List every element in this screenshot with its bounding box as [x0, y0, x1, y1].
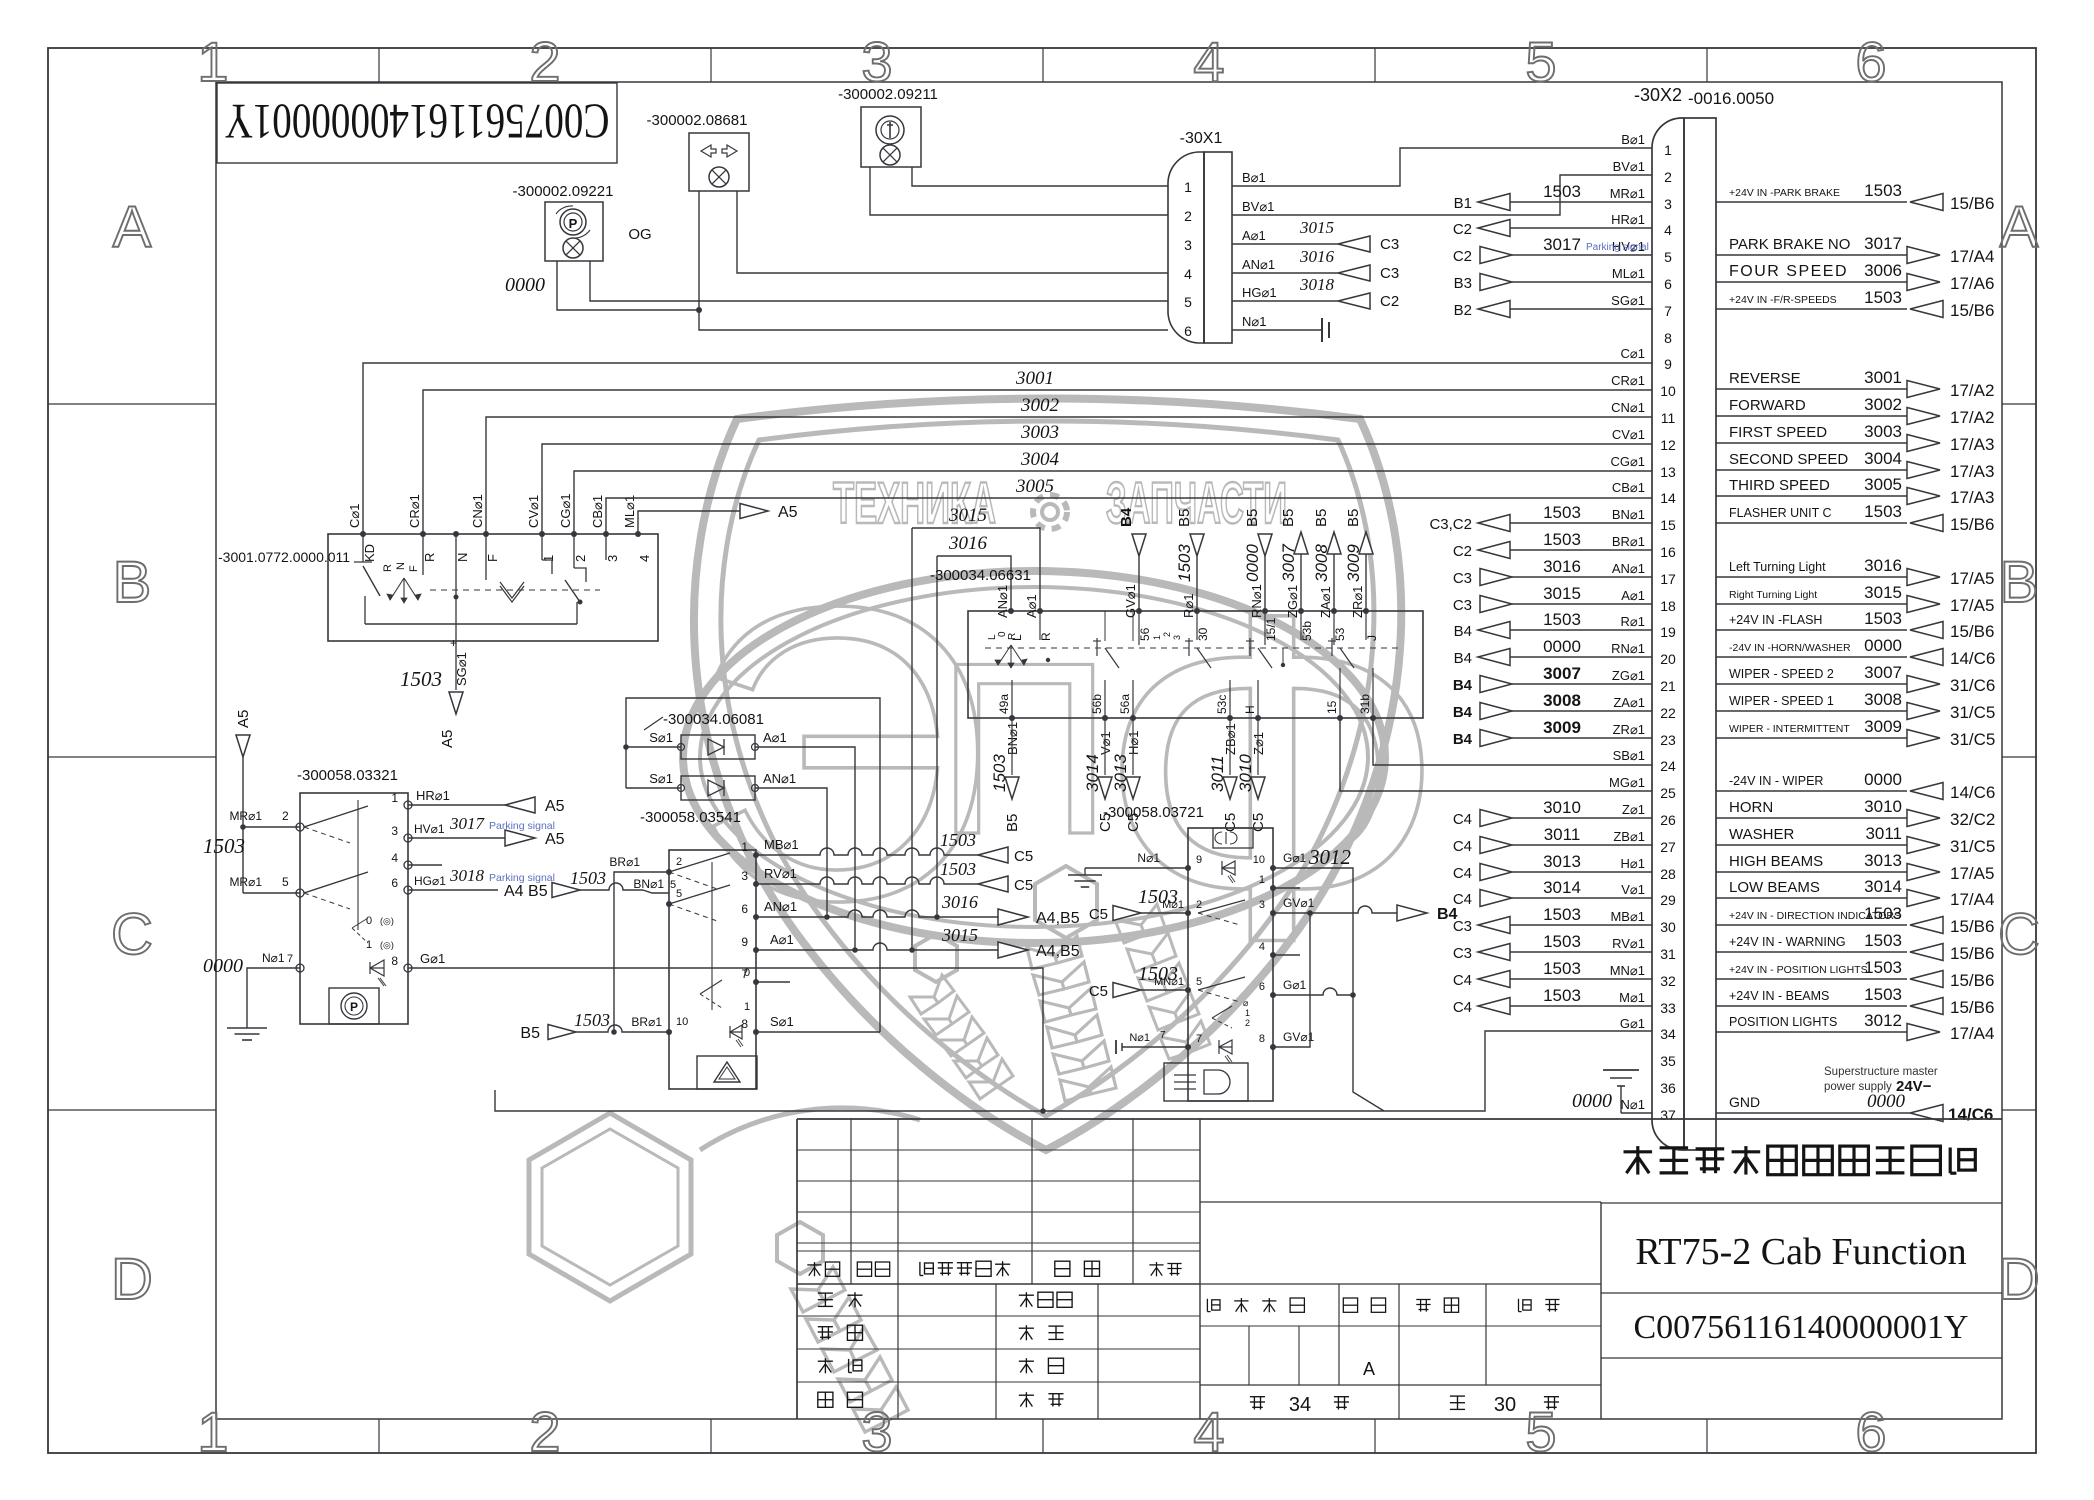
svg-text:A4,B5: A4,B5	[1036, 943, 1080, 960]
wire B⌀1 from -300002.09211 to X1 pin 1	[912, 167, 1168, 186]
svg-text:ZB⌀1: ZB⌀1	[1613, 829, 1645, 844]
svg-text:31: 31	[1660, 946, 1676, 962]
svg-text:3: 3	[1259, 899, 1265, 911]
svg-text:C3: C3	[1453, 570, 1472, 587]
svg-text:1503: 1503	[1864, 904, 1902, 923]
X2 pin 5 left stub C2 3017	[1453, 235, 1652, 265]
svg-text:HG⌀1: HG⌀1	[1242, 285, 1277, 300]
X2 pin 4 left stub C2	[1453, 220, 1652, 239]
svg-text:2: 2	[529, 1400, 560, 1463]
svg-text:MR⌀1: MR⌀1	[229, 875, 262, 889]
svg-text:31/C5: 31/C5	[1950, 703, 1995, 722]
svg-text:32: 32	[1660, 973, 1676, 989]
svg-text:A5: A5	[545, 798, 565, 815]
svg-text:WIPER - SPEED 2: WIPER - SPEED 2	[1729, 667, 1834, 681]
X2 pin 13 signal row SECOND SPEED	[1716, 449, 1994, 481]
svg-text:17: 17	[1660, 571, 1676, 587]
svg-text:Parking signal: Parking signal	[1586, 242, 1649, 253]
svg-text:17/A4: 17/A4	[1950, 247, 1994, 266]
svg-text:HR⌀1: HR⌀1	[1611, 212, 1645, 227]
svg-text:1503: 1503	[1864, 958, 1902, 977]
svg-text:R: R	[422, 553, 437, 562]
svg-text:31b: 31b	[1358, 694, 1372, 714]
svg-text:H: H	[1243, 705, 1257, 714]
svg-text:3010: 3010	[1864, 797, 1902, 816]
svg-text:-24V IN - WIPER: -24V IN - WIPER	[1729, 774, 1823, 788]
wire HG⌀1 from -300002.09221 to X1 pin 5	[590, 261, 1168, 301]
wire G⌀1 position light net long run	[408, 951, 1652, 1114]
svg-text:3004: 3004	[1020, 449, 1060, 470]
svg-text:17/A3: 17/A3	[1950, 435, 1994, 454]
node B5 0000 to RN⌀1	[1243, 509, 1272, 611]
X2 pin 3 signal row +24V IN -PARK BRAKE	[1716, 181, 1994, 213]
svg-text:+24V IN -F/R-SPEEDS: +24V IN -F/R-SPEEDS	[1729, 294, 1837, 306]
wire BR⌀1 stub at hazard pin 2	[609, 855, 669, 1035]
X2 pin 31 signal row +24V IN - WARNING	[1716, 931, 1994, 963]
svg-text:3013: 3013	[1111, 754, 1130, 792]
svg-text:18: 18	[1660, 598, 1676, 614]
svg-text:(◎): (◎)	[380, 940, 394, 950]
svg-text:S⌀1: S⌀1	[649, 771, 673, 786]
svg-text:35: 35	[1660, 1053, 1676, 1069]
svg-text:17/A3: 17/A3	[1950, 488, 1994, 507]
svg-text:RV⌀1: RV⌀1	[1612, 936, 1645, 951]
svg-text:3008: 3008	[1864, 690, 1902, 709]
svg-text:G⌀1: G⌀1	[1620, 1016, 1645, 1031]
wire AN⌀1 3016 to A4,B5	[756, 892, 1080, 927]
X2 pin 27 left stub C4 3011	[1453, 825, 1652, 855]
svg-text:15/B6: 15/B6	[1950, 622, 1994, 641]
svg-text:4: 4	[637, 555, 652, 562]
svg-text:2: 2	[1196, 899, 1202, 911]
X2 pin 30 signal row +24V IN - DIRECTION INDICATORS	[1716, 904, 1994, 936]
svg-text:53c: 53c	[1215, 695, 1229, 714]
svg-text:16: 16	[1660, 544, 1676, 560]
svg-text:15/B6: 15/B6	[1950, 917, 1994, 936]
svg-text:Left Turning Light: Left Turning Light	[1729, 560, 1826, 574]
svg-text:N⌀1: N⌀1	[1242, 314, 1266, 329]
svg-text:17/A5: 17/A5	[1950, 569, 1994, 588]
svg-text:BV⌀1: BV⌀1	[1242, 199, 1274, 214]
svg-text:3016: 3016	[948, 533, 988, 554]
svg-text:1503: 1503	[400, 667, 442, 691]
svg-text:1: 1	[741, 840, 748, 854]
svg-text:3: 3	[741, 869, 748, 883]
svg-text:B5: B5	[520, 1025, 540, 1042]
X2 pin 12 signal row FIRST SPEED	[1716, 422, 1994, 454]
svg-text:-300002.08681: -300002.08681	[647, 112, 748, 129]
svg-text:5: 5	[1525, 1400, 1556, 1463]
svg-text:0: 0	[744, 967, 750, 979]
svg-text:C3: C3	[1380, 265, 1399, 282]
wiper and turn switch -300034.06631	[930, 567, 1423, 721]
X2 pin 11 signal row FORWARD	[1716, 395, 1994, 427]
svg-text:3: 3	[391, 824, 398, 838]
svg-text:PARK BRAKE NO: PARK BRAKE NO	[1729, 236, 1850, 253]
X2 pin 17 left stub C3 3016	[1453, 557, 1652, 587]
svg-text:10: 10	[1660, 383, 1676, 399]
svg-text:3005: 3005	[1864, 475, 1902, 494]
svg-text:3010: 3010	[1236, 754, 1255, 792]
wire SB⌀1 to X2 pin 24	[1373, 718, 1652, 765]
wire 3001 reverse selector to X2 pin 10	[423, 368, 1652, 534]
wire 0000 ground net from -300002.09221	[505, 261, 699, 310]
wire A⌀1 3015 to A4,B5	[756, 925, 1080, 960]
svg-text:3011: 3011	[1865, 824, 1902, 843]
svg-text:5: 5	[1664, 249, 1672, 265]
wire SG⌀1 with 1503 to A5	[400, 636, 469, 748]
svg-text:P: P	[350, 1000, 358, 1014]
svg-text:CV⌀1: CV⌀1	[526, 495, 541, 528]
wire C5 1503 M⌀1 to pin 2	[1089, 886, 1188, 923]
wire C5 1503 MN⌀1 to pin 5	[1089, 963, 1188, 1000]
label: rotated drawing number C00756116140000001Y	[217, 83, 617, 163]
svg-text:BN⌀1: BN⌀1	[633, 877, 664, 891]
svg-text:3011: 3011	[1544, 825, 1581, 844]
wire 3005 third speed to X2 pin 14	[606, 476, 1652, 534]
svg-text:B2: B2	[1454, 302, 1472, 319]
svg-text:17/A2: 17/A2	[1950, 381, 1994, 400]
svg-text:C3: C3	[1453, 597, 1472, 614]
svg-text:A4,B5: A4,B5	[1036, 910, 1080, 927]
svg-text:15/B6: 15/B6	[1950, 301, 1994, 320]
X2 pin 19 left stub B4 1503	[1454, 610, 1652, 640]
wire G⌀1 3012 from pin 10	[1273, 845, 1384, 1111]
svg-text:7: 7	[287, 953, 293, 965]
svg-text:2: 2	[1245, 1018, 1250, 1028]
wire AN⌀1 from -300002.08681 to X1 pin 4	[737, 191, 1168, 273]
chassis ground at X1 pin 6	[1232, 318, 1329, 342]
svg-text:13: 13	[1660, 464, 1676, 480]
svg-text:1503: 1503	[1543, 986, 1581, 1005]
svg-text:ZR⌀1: ZR⌀1	[1350, 586, 1365, 618]
svg-text:GND: GND	[1729, 1094, 1760, 1110]
svg-text:1: 1	[1184, 179, 1192, 195]
svg-text:0000: 0000	[1867, 1091, 1906, 1112]
svg-text:THIRD SPEED: THIRD SPEED	[1729, 477, 1830, 494]
drawing title RT75-2 Cab Function	[1635, 1231, 1966, 1273]
svg-text:31/C6: 31/C6	[1950, 676, 1995, 695]
svg-text:10: 10	[676, 1016, 688, 1028]
svg-text:1: 1	[541, 555, 556, 562]
svg-text:6: 6	[391, 876, 398, 890]
svg-text:31/C5: 31/C5	[1950, 730, 1995, 749]
svg-text:26: 26	[1660, 812, 1676, 828]
title block	[797, 1119, 2002, 1419]
company name Zoomlion	[1601, 1146, 2002, 1358]
svg-text:3010: 3010	[1543, 798, 1581, 817]
svg-text:20: 20	[1660, 651, 1676, 667]
X2 pin 34 signal row POSITION LIGHTS	[1716, 1011, 1994, 1043]
svg-text:FLASHER UNIT C: FLASHER UNIT C	[1729, 506, 1832, 520]
svg-text:17/A4: 17/A4	[1950, 890, 1994, 909]
svg-text:A⌀1: A⌀1	[1024, 594, 1039, 618]
svg-text:N: N	[395, 562, 407, 570]
wire AN⌀1 diode out to 3016 column	[755, 788, 827, 917]
svg-text:3012: 3012	[1864, 1011, 1902, 1030]
svg-text:12: 12	[1660, 437, 1676, 453]
svg-text:4: 4	[1184, 266, 1192, 282]
wire HV⌀1 3017 parking signal to A5	[408, 814, 565, 848]
svg-text:B1: B1	[1454, 195, 1472, 212]
svg-text:C00756116140000001Y: C00756116140000001Y	[225, 94, 610, 150]
svg-text:WIPER - INTERMITTENT: WIPER - INTERMITTENT	[1729, 723, 1850, 735]
svg-text:-3001.0772.0000.011: -3001.0772.0000.011	[218, 549, 350, 565]
svg-text:0000: 0000	[1864, 770, 1902, 789]
X2 pin 23 signal row WIPER - INTERMITTENT	[1716, 717, 1995, 749]
svg-text:A⌀1: A⌀1	[763, 730, 787, 745]
svg-text:ZG⌀1: ZG⌀1	[1285, 585, 1300, 618]
svg-text:1: 1	[366, 939, 372, 951]
svg-text:30: 30	[1494, 1394, 1516, 1416]
svg-text:28: 28	[1660, 866, 1676, 882]
svg-text:J: J	[1365, 635, 1379, 641]
svg-text:MR⌀1: MR⌀1	[1610, 186, 1645, 201]
svg-text:C3,C2: C3,C2	[1429, 516, 1472, 533]
svg-text:C⌀1: C⌀1	[1621, 346, 1645, 361]
svg-text:N⌀1: N⌀1	[1621, 1097, 1645, 1112]
svg-text:1503: 1503	[1543, 503, 1581, 522]
svg-text:3003: 3003	[1020, 422, 1059, 443]
svg-text:B5: B5	[1280, 509, 1297, 527]
svg-text:M⌀1: M⌀1	[1619, 990, 1645, 1005]
X2 pin 32 signal row +24V IN - POSITION LIGHTS	[1716, 958, 1994, 990]
ground at headlight switch pin 9	[1068, 851, 1188, 887]
svg-text:FOUR SPEED: FOUR SPEED	[1729, 263, 1848, 280]
svg-text:C5: C5	[1089, 906, 1108, 923]
svg-text:C3: C3	[1453, 918, 1472, 935]
svg-text:RV⌀1: RV⌀1	[764, 866, 797, 881]
node 3018 stub at X1 pin 5	[1232, 275, 1399, 310]
drawing number C00756116140000001Y	[1634, 1309, 1969, 1346]
svg-text:31/C5: 31/C5	[1950, 837, 1995, 856]
X2 pin 15 signal row FLASHER UNIT C	[1716, 502, 1994, 534]
wire S⌀1 net from hazard pin 8 over diode unit	[623, 698, 880, 1032]
svg-text:G⌀1: G⌀1	[1283, 851, 1307, 865]
svg-text:ML⌀1: ML⌀1	[1612, 266, 1645, 281]
svg-text:R: R	[1007, 633, 1018, 640]
svg-text:A: A	[113, 195, 152, 260]
svg-text:RN⌀1: RN⌀1	[1249, 584, 1264, 618]
svg-text:1503: 1503	[990, 754, 1009, 792]
svg-text:3013: 3013	[1864, 851, 1902, 870]
svg-text:0000: 0000	[203, 955, 243, 977]
ground + 0000 at combination switch pin 7	[203, 951, 300, 1040]
svg-text:CB⌀1: CB⌀1	[590, 495, 605, 528]
node 3016 stub at X1 pin 4	[1232, 247, 1399, 282]
svg-text:34: 34	[1660, 1026, 1676, 1042]
svg-text:0000: 0000	[1543, 637, 1581, 656]
svg-text:BV⌀1: BV⌀1	[1613, 159, 1645, 174]
svg-text:MB⌀1: MB⌀1	[764, 837, 799, 852]
X2 pin 21 left stub B4 3007	[1453, 664, 1652, 694]
svg-text:1503: 1503	[1543, 959, 1581, 978]
X2 pin 22 left stub B4 3008	[1453, 691, 1652, 721]
svg-text:3: 3	[1172, 635, 1182, 640]
svg-text:B⌀1: B⌀1	[1621, 132, 1645, 147]
wire HG⌀1 3018 parking signal to hazard switch	[408, 866, 676, 900]
svg-text:3014: 3014	[1083, 754, 1102, 792]
svg-text:-300034.06081: -300034.06081	[663, 711, 764, 728]
svg-text:-300002.09211: -300002.09211	[838, 86, 938, 103]
lamp unit -300002.08681 turn signal indicator	[647, 112, 749, 191]
svg-text:C4: C4	[1453, 811, 1472, 828]
svg-text:BR⌀1: BR⌀1	[609, 855, 640, 869]
svg-text:1503: 1503	[574, 1010, 610, 1030]
X2 pin 20 signal row -24V IN -HORN/WASHER	[1716, 636, 1995, 668]
svg-text:A: A	[2000, 195, 2039, 260]
wire N⌀1 to pin 7	[1116, 1030, 1188, 1054]
svg-text:A: A	[1363, 1359, 1375, 1379]
svg-text:-24V IN -HORN/WASHER: -24V IN -HORN/WASHER	[1729, 642, 1851, 654]
wire BV⌀1 from -300002.09211 to X1 pin 2	[870, 167, 1168, 215]
svg-text:3017: 3017	[449, 814, 486, 833]
key switch unit -300002.09211	[838, 86, 938, 167]
svg-text:+24V IN -PARK BRAKE: +24V IN -PARK BRAKE	[1729, 187, 1840, 199]
svg-text:4: 4	[1193, 1400, 1224, 1463]
svg-text:2: 2	[1162, 632, 1172, 637]
X2 pin 29 left stub C4 3014	[1453, 878, 1652, 908]
svg-text:P: P	[569, 216, 578, 231]
svg-text:1: 1	[744, 1001, 750, 1013]
svg-text:0000: 0000	[1572, 1090, 1612, 1112]
pin 4 stub	[408, 864, 442, 866]
svg-text:AN⌀1: AN⌀1	[763, 771, 796, 786]
X2 pin 21 signal row WIPER - SPEED 2	[1716, 663, 1995, 695]
svg-text:+: +	[450, 636, 457, 650]
svg-text:3: 3	[605, 555, 620, 562]
svg-text:2: 2	[573, 555, 588, 562]
svg-text:3014: 3014	[1864, 877, 1902, 896]
svg-text:3007: 3007	[1864, 663, 1902, 682]
svg-text:C4: C4	[1453, 972, 1472, 989]
svg-text:CR⌀1: CR⌀1	[407, 494, 422, 528]
wire ML⌀1 to A5 arrow	[638, 504, 798, 535]
svg-text:C4: C4	[1453, 838, 1472, 855]
svg-text:R: R	[1039, 632, 1053, 641]
svg-text:3008: 3008	[1543, 691, 1581, 710]
svg-text:HR⌀1: HR⌀1	[416, 788, 450, 803]
wire 3002 forward selector to X2 pin 11	[486, 395, 1652, 534]
wire A⌀1 diode out to 3015 column	[755, 747, 855, 950]
svg-text:CG⌀1: CG⌀1	[1610, 454, 1645, 469]
svg-text:G⌀1: G⌀1	[1283, 978, 1307, 992]
X2 pin 23 left stub B4 3009	[1453, 718, 1652, 748]
svg-text:AN⌀1: AN⌀1	[995, 585, 1010, 618]
svg-text:MN⌀1: MN⌀1	[1154, 976, 1184, 988]
svg-text:BR⌀1: BR⌀1	[631, 1015, 662, 1029]
headlight switch -300058.03721	[1103, 804, 1276, 1101]
svg-text:A5: A5	[439, 730, 456, 748]
svg-text:C5: C5	[1089, 983, 1108, 1000]
svg-text:1503: 1503	[1543, 610, 1581, 629]
svg-text:ТЕХНИКА: ТЕХНИКА	[833, 471, 996, 536]
X2 pin 20 left stub B4 0000	[1454, 637, 1652, 667]
wire B⌀1 X1 pin1 to X2 pin 1	[1232, 148, 1652, 186]
svg-text:B: B	[113, 550, 152, 615]
svg-text:3011: 3011	[1208, 755, 1227, 792]
svg-text:C4: C4	[1453, 865, 1472, 882]
X2 pin 6 signal row FOUR SPEED	[1716, 261, 1994, 293]
svg-text:24: 24	[1660, 758, 1676, 774]
svg-text:R: R	[382, 564, 394, 572]
svg-text:CG⌀1: CG⌀1	[558, 493, 573, 528]
svg-text:11: 11	[1661, 410, 1676, 426]
svg-text:C4: C4	[1453, 891, 1472, 908]
svg-text:C5: C5	[1222, 813, 1239, 832]
svg-text:MN⌀1: MN⌀1	[1610, 963, 1645, 978]
svg-text:23: 23	[1660, 732, 1676, 748]
svg-text:17/A5: 17/A5	[1950, 864, 1994, 883]
svg-text:HV⌀1: HV⌀1	[414, 822, 445, 836]
svg-text:C5: C5	[1014, 848, 1033, 865]
X2 pin 27 signal row WASHER	[1716, 824, 1995, 856]
svg-text:D: D	[1998, 1247, 2040, 1312]
svg-text:15/B6: 15/B6	[1950, 998, 1994, 1017]
node B5 3008 from ZA⌀1	[1312, 509, 1341, 611]
svg-text:2: 2	[676, 856, 682, 868]
svg-text:S⌀1: S⌀1	[770, 1014, 794, 1029]
X2 pin 10 signal row REVERSE	[1716, 368, 1994, 400]
svg-text:B⌀1: B⌀1	[1242, 170, 1266, 185]
node B5 3009 from ZR⌀1	[1344, 509, 1373, 611]
svg-text:3009: 3009	[1543, 718, 1581, 737]
wire MB⌀1 with 1503 C5 stub	[756, 830, 1033, 865]
svg-text:15/B6: 15/B6	[1950, 971, 1994, 990]
svg-text:3006: 3006	[1864, 261, 1902, 280]
node 3013 H⌀1 to C5	[1111, 718, 1142, 832]
X2 pin 7 left stub B2	[1454, 301, 1652, 320]
svg-text:3015: 3015	[948, 505, 987, 526]
svg-text:3003: 3003	[1864, 422, 1902, 441]
connector X2 -30X2 -0016.0050	[1634, 85, 1774, 1150]
svg-text:3016: 3016	[1543, 557, 1581, 576]
svg-text:Superstructure master: Superstructure master	[1824, 1066, 1938, 1078]
svg-text:4: 4	[1664, 222, 1672, 238]
diode unit -300034.06081	[644, 711, 796, 800]
X2 pin 31 left stub C3 1503	[1453, 932, 1652, 962]
svg-text:1: 1	[391, 791, 398, 805]
svg-text:3008: 3008	[1312, 544, 1331, 582]
svg-text:6: 6	[1664, 276, 1672, 292]
svg-text:3001: 3001	[1864, 368, 1902, 387]
svg-text:A⌀1: A⌀1	[770, 932, 794, 947]
svg-text:3: 3	[1664, 196, 1672, 212]
svg-text:C2: C2	[1453, 221, 1472, 238]
svg-text:3: 3	[861, 30, 892, 93]
svg-text:17/A5: 17/A5	[1950, 596, 1994, 615]
node 3015 net	[912, 505, 1040, 950]
svg-text:4: 4	[1193, 30, 1224, 93]
node B5 1503 to R⌀1	[1175, 509, 1204, 611]
svg-text:ML⌀1: ML⌀1	[622, 495, 637, 528]
svg-text:MR⌀1: MR⌀1	[229, 809, 262, 823]
wire N⌀1 from -300002.08681 to X1 pin 6	[696, 191, 1168, 330]
svg-text:1503: 1503	[570, 868, 606, 888]
svg-text:C2: C2	[1453, 248, 1472, 265]
svg-text:N: N	[455, 553, 470, 562]
svg-text:A⌀1: A⌀1	[1242, 228, 1266, 243]
svg-text:HG⌀1: HG⌀1	[414, 874, 446, 888]
svg-text:POSITION LIGHTS: POSITION LIGHTS	[1729, 1015, 1837, 1029]
wire 3004 second speed to X2 pin 13	[574, 449, 1652, 534]
svg-text:B4: B4	[1453, 704, 1473, 721]
svg-text:-0016.0050: -0016.0050	[1688, 89, 1774, 108]
svg-text:56b: 56b	[1090, 694, 1104, 714]
svg-text:15/B6: 15/B6	[1950, 515, 1994, 534]
svg-text:3: 3	[861, 1400, 892, 1463]
svg-text:0: 0	[366, 915, 372, 927]
